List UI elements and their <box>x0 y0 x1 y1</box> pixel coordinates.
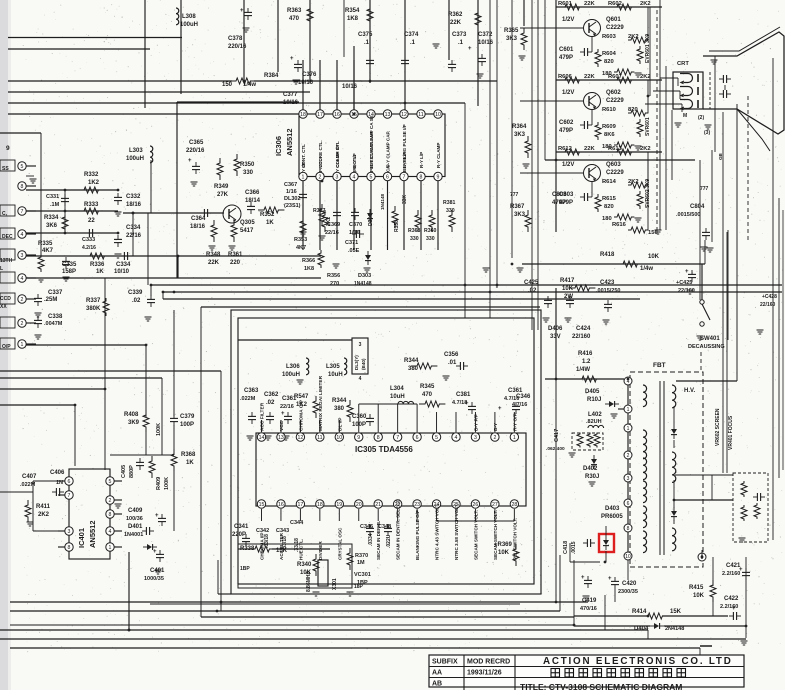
svg-text:1/2V: 1/2V <box>562 17 574 23</box>
svg-text:1N4148: 1N4148 <box>354 281 372 287</box>
svg-text:C420: C420 <box>622 581 637 587</box>
svg-text:CHROMA O/P: CHROMA O/P <box>298 399 304 431</box>
svg-text:22K: 22K <box>584 1 595 7</box>
svg-text:10uH: 10uH <box>328 372 343 378</box>
svg-text:10K: 10K <box>648 254 660 260</box>
svg-text:9: 9 <box>6 145 10 152</box>
svg-text:R353: R353 <box>294 237 307 243</box>
svg-text:100K: 100K <box>164 477 170 490</box>
svg-text:1N4001: 1N4001 <box>124 532 143 538</box>
svg-text:R-Y CLAMP: R-Y CLAMP <box>436 143 441 168</box>
svg-text:R411: R411 <box>36 504 51 510</box>
svg-text:.1: .1 <box>458 40 464 46</box>
svg-text:.0047M: .0047M <box>44 321 63 327</box>
svg-text:VCC: VCC <box>279 420 285 431</box>
svg-text:22/16: 22/16 <box>126 233 142 239</box>
svg-text:10/16: 10/16 <box>298 80 314 86</box>
svg-text:C367: C367 <box>284 182 297 188</box>
svg-text:.01: .01 <box>448 360 457 366</box>
svg-text:C369: C369 <box>327 222 340 228</box>
svg-text:33V: 33V <box>550 334 561 340</box>
svg-text:L402: L402 <box>588 412 602 418</box>
svg-text:C344: C344 <box>290 520 304 526</box>
svg-text:8: 8 <box>68 545 71 551</box>
svg-text:SW401: SW401 <box>700 336 720 342</box>
svg-text:C378: C378 <box>228 36 243 42</box>
svg-text:TITLE: CTV-3108 SCHEMATIC D: TITLE: CTV-3108 SCHEMATIC DIAGRAM <box>520 682 682 690</box>
svg-text:1/16: 1/16 <box>286 189 297 195</box>
svg-text:1.2: 1.2 <box>582 359 591 365</box>
svg-text:1K: 1K <box>266 220 274 226</box>
svg-text:R364: R364 <box>512 124 527 130</box>
svg-text:AA: AA <box>432 670 442 677</box>
svg-text:AN5512: AN5512 <box>285 128 294 156</box>
svg-text:NTRC 3.58 SWITCH VOLT.: NTRC 3.58 SWITCH VOLT. <box>454 504 459 560</box>
svg-text:220/16: 220/16 <box>186 148 205 154</box>
svg-text:+: + <box>153 549 157 555</box>
svg-text:C362: C362 <box>264 392 279 398</box>
svg-text:180: 180 <box>602 216 612 222</box>
svg-text:33K: 33K <box>402 194 408 204</box>
svg-text:10/16: 10/16 <box>283 100 299 106</box>
svg-text:C379: C379 <box>180 414 195 420</box>
svg-text:C375: C375 <box>358 32 373 38</box>
svg-text:R344: R344 <box>404 358 419 364</box>
svg-text:Q601: Q601 <box>606 17 621 23</box>
svg-text:820: 820 <box>604 204 614 210</box>
svg-text:IC306: IC306 <box>274 136 283 156</box>
svg-text:VR602 SCREEN: VR602 SCREEN <box>715 408 721 446</box>
svg-text:4K7: 4K7 <box>296 245 306 251</box>
svg-text:8.86MHZ: 8.86MHZ <box>306 571 312 592</box>
svg-text:100P: 100P <box>180 422 194 428</box>
svg-text:C374: C374 <box>404 32 419 38</box>
svg-text:C424: C424 <box>576 326 591 332</box>
svg-text:ACTION ELECTRONIS CO. LTD: ACTION ELECTRONIS CO. LTD <box>543 656 733 667</box>
svg-text:D401: D401 <box>128 524 143 530</box>
svg-text:1/4w: 1/4w <box>243 82 256 88</box>
svg-text:4: 4 <box>21 232 24 238</box>
svg-text:R-Y L/P: R-Y L/P <box>419 152 424 168</box>
svg-text:1K8: 1K8 <box>304 266 314 272</box>
svg-text:C409: C409 <box>128 508 143 514</box>
svg-text:5: 5 <box>21 164 24 170</box>
svg-text:2K2: 2K2 <box>38 512 50 518</box>
svg-text:1: 1 <box>21 342 24 348</box>
svg-text:Y I/P: Y I/P <box>301 162 306 172</box>
svg-text:C365: C365 <box>189 140 204 146</box>
svg-text:.1: .1 <box>364 40 370 46</box>
svg-text:C/P: C/P <box>386 164 391 172</box>
svg-text:C2229: C2229 <box>606 170 624 176</box>
svg-text:CCD: CCD <box>0 296 11 302</box>
svg-text:DECAUSSING: DECAUSSING <box>688 344 725 350</box>
svg-text:820: 820 <box>604 59 614 65</box>
svg-text:2K2: 2K2 <box>640 1 651 7</box>
svg-text:C339: C339 <box>128 290 143 296</box>
svg-text:MOD RECRD: MOD RECRD <box>467 659 510 666</box>
svg-text:8: 8 <box>109 512 112 518</box>
svg-text:6: 6 <box>68 479 71 485</box>
svg-text:380: 380 <box>408 366 419 372</box>
svg-text:17: 17 <box>317 112 323 118</box>
svg-text:18: 18 <box>300 112 306 118</box>
svg-text:2: 2 <box>21 297 24 303</box>
svg-text:1/16: 1/16 <box>349 230 360 236</box>
svg-text:1BP: 1BP <box>240 566 250 572</box>
svg-text:8: 8 <box>21 184 24 190</box>
svg-text:100uH: 100uH <box>180 22 198 28</box>
svg-text:R384: R384 <box>264 73 279 79</box>
svg-text:D402: D402 <box>583 466 598 472</box>
svg-text:220P: 220P <box>232 532 246 538</box>
svg-text:2: 2 <box>319 174 322 180</box>
svg-text:DL302: DL302 <box>284 196 301 202</box>
svg-text:3K3: 3K3 <box>514 212 526 218</box>
svg-text:330: 330 <box>446 208 455 214</box>
svg-text:8: 8 <box>377 435 380 441</box>
svg-text:14: 14 <box>259 435 265 441</box>
svg-text:R602: R602 <box>608 1 622 7</box>
svg-text:15K: 15K <box>670 609 682 615</box>
svg-text:18/16: 18/16 <box>126 202 142 208</box>
svg-text:D403: D403 <box>605 506 620 512</box>
svg-text:8: 8 <box>627 526 630 532</box>
svg-text:.022U: .022U <box>386 534 392 548</box>
svg-text:470: 470 <box>289 16 300 22</box>
svg-text:(3): (3) <box>704 130 710 136</box>
svg-text:C331: C331 <box>46 194 59 200</box>
svg-text:479P: 479P <box>559 55 573 61</box>
svg-text:NTRC 4.43 SWITCH VOLT.: NTRC 4.43 SWITCH VOLT. <box>435 504 440 560</box>
svg-text:R336: R336 <box>90 262 105 268</box>
svg-text:R610: R610 <box>602 107 616 113</box>
svg-text:SECAM IN DENTR. SELECT.: SECAM IN DENTR. SELECT. <box>396 499 401 560</box>
svg-text:+: + <box>155 513 159 519</box>
svg-text:1K2: 1K2 <box>88 180 100 186</box>
svg-text:R340: R340 <box>297 562 312 568</box>
svg-text:+: + <box>290 56 294 62</box>
svg-text:28: 28 <box>511 502 517 508</box>
svg-text:H.V.: H.V. <box>684 388 695 394</box>
svg-text:777: 777 <box>510 192 519 198</box>
svg-text:C2229: C2229 <box>606 98 624 104</box>
svg-text:C370: C370 <box>349 222 362 228</box>
svg-text:10: 10 <box>625 554 631 560</box>
svg-text:18P: 18P <box>354 584 364 590</box>
svg-text:C337: C337 <box>48 290 63 296</box>
svg-text:C2229: C2229 <box>606 25 624 31</box>
svg-text:3: 3 <box>21 253 24 259</box>
svg-text:R609: R609 <box>602 124 617 130</box>
svg-text:PR6005: PR6005 <box>601 514 623 520</box>
svg-text:4: 4 <box>359 376 362 382</box>
svg-text:.02: .02 <box>266 400 275 406</box>
svg-text:330: 330 <box>243 170 254 176</box>
svg-text:R607: R607 <box>608 74 622 80</box>
svg-text:3: 3 <box>359 342 362 348</box>
svg-text:R363: R363 <box>287 8 302 14</box>
svg-text:X301: X301 <box>332 578 338 590</box>
svg-text:+: + <box>498 406 502 412</box>
svg-text:R614: R614 <box>602 179 617 185</box>
svg-text:.25M: .25M <box>44 297 57 303</box>
svg-text:+: + <box>739 567 743 573</box>
svg-text:SUBFIX: SUBFIX <box>432 659 458 666</box>
svg-text:3: 3 <box>474 435 477 441</box>
svg-text:13: 13 <box>385 112 391 118</box>
svg-text:C803: C803 <box>552 192 567 198</box>
svg-text:.82UH: .82UH <box>586 419 602 425</box>
svg-text:3: 3 <box>627 476 630 482</box>
svg-text:+: + <box>240 8 244 14</box>
svg-text:7: 7 <box>396 435 399 441</box>
svg-text:Q305: Q305 <box>240 220 255 226</box>
svg-text:330: 330 <box>410 236 419 242</box>
svg-text:4: 4 <box>353 174 356 180</box>
svg-text:R415: R415 <box>689 585 704 591</box>
svg-text:C372: C372 <box>478 32 493 38</box>
svg-text:5: 5 <box>435 435 438 441</box>
svg-text:.02: .02 <box>132 298 141 304</box>
svg-text:+: + <box>281 411 285 417</box>
svg-text:11: 11 <box>317 435 322 441</box>
svg-text:6: 6 <box>627 501 630 507</box>
svg-text:C363: C363 <box>244 388 259 394</box>
svg-text:Q603: Q603 <box>606 162 621 168</box>
svg-text:6: 6 <box>416 435 419 441</box>
svg-text:9: 9 <box>437 174 440 180</box>
svg-text:C332: C332 <box>126 194 141 200</box>
svg-text:23: 23 <box>414 502 420 508</box>
svg-text:.0015/250: .0015/250 <box>596 288 620 294</box>
svg-text:26: 26 <box>473 502 479 508</box>
svg-text:R616: R616 <box>612 222 627 228</box>
svg-text:4: 4 <box>109 529 112 535</box>
svg-text:R368: R368 <box>181 452 196 458</box>
svg-text:19: 19 <box>336 502 342 508</box>
svg-text:R360: R360 <box>424 228 437 234</box>
svg-text:380: 380 <box>334 406 345 412</box>
svg-text:8K6: 8K6 <box>604 132 615 138</box>
svg-text:100uH: 100uH <box>126 156 144 162</box>
svg-text:C422: C422 <box>724 596 739 602</box>
svg-text:100/36: 100/36 <box>126 516 143 522</box>
svg-text:.02: .02 <box>528 288 537 294</box>
svg-text:C407: C407 <box>22 474 37 480</box>
svg-text:22K: 22K <box>584 146 595 152</box>
svg-text:3K6: 3K6 <box>46 223 58 229</box>
svg-text:D405: D405 <box>585 389 600 395</box>
svg-text:C419: C419 <box>582 598 597 604</box>
svg-text:R10J: R10J <box>587 397 601 403</box>
svg-text:1/2V: 1/2V <box>562 162 574 168</box>
svg-text:22/160: 22/160 <box>572 334 591 340</box>
svg-text:C371: C371 <box>345 240 358 246</box>
svg-text:+: + <box>468 46 472 52</box>
svg-text:150: 150 <box>222 82 233 88</box>
svg-text:R344: R344 <box>332 398 347 404</box>
svg-text:2: 2 <box>493 435 496 441</box>
svg-text:G-Y CLAMP CAP.: G-Y CLAMP CAP. <box>386 131 391 168</box>
svg-text:100uH: 100uH <box>282 372 300 378</box>
svg-text:C425: C425 <box>524 280 539 286</box>
svg-text:22/160: 22/160 <box>678 288 695 294</box>
svg-text:380K: 380K <box>86 306 101 312</box>
svg-text:FBT: FBT <box>653 362 666 369</box>
svg-text:DL I/P: DL I/P <box>337 417 343 431</box>
svg-text:22: 22 <box>88 218 95 224</box>
svg-text:C601: C601 <box>559 47 574 53</box>
svg-text:BLANKING PULSE I/P: BLANKING PULSE I/P <box>402 124 407 172</box>
svg-text:XX: XX <box>0 304 7 310</box>
svg-text:.33/18: .33/18 <box>294 538 300 552</box>
svg-text:1M: 1M <box>357 560 365 566</box>
svg-text:C346: C346 <box>516 394 531 400</box>
svg-text:D404: D404 <box>634 626 649 632</box>
svg-text:R615: R615 <box>602 196 617 202</box>
svg-text:4K7: 4K7 <box>42 248 54 254</box>
svg-text:10/16: 10/16 <box>478 40 494 46</box>
svg-text:C333: C333 <box>82 237 95 243</box>
svg-text:R30J: R30J <box>585 474 599 480</box>
svg-text:AB: AB <box>432 681 442 688</box>
svg-text:C343: C343 <box>276 528 289 534</box>
svg-text:6: 6 <box>386 174 389 180</box>
svg-text:4.7/16: 4.7/16 <box>512 402 527 408</box>
svg-text:3K9: 3K9 <box>128 420 140 426</box>
svg-text:R417: R417 <box>560 278 575 284</box>
svg-text:C360: C360 <box>352 414 367 420</box>
svg-text:27K: 27K <box>217 192 229 198</box>
svg-text:.022M: .022M <box>240 396 256 402</box>
svg-text:1: 1 <box>627 407 630 413</box>
svg-text:D303: D303 <box>358 273 371 279</box>
svg-text:R368: R368 <box>408 228 421 234</box>
svg-text:21: 21 <box>375 502 381 508</box>
svg-text:+: + <box>685 269 689 275</box>
svg-text:R350: R350 <box>240 162 255 168</box>
svg-text:C405: C405 <box>121 465 127 478</box>
svg-text:(B40): (B40) <box>361 358 366 370</box>
svg-text:+: + <box>608 576 612 582</box>
svg-text:C381: C381 <box>456 392 471 398</box>
svg-text:IC401: IC401 <box>77 528 86 548</box>
svg-text:R332: R332 <box>84 172 99 178</box>
svg-text:PICTURE CTL.: PICTURE CTL. <box>318 140 323 172</box>
svg-text:15: 15 <box>259 502 265 508</box>
svg-text:C342: C342 <box>256 528 269 534</box>
svg-text:.0015: .0015 <box>571 541 577 554</box>
svg-text:R381: R381 <box>443 200 456 206</box>
svg-text:.33/18: .33/18 <box>264 534 270 548</box>
svg-text:(2): (2) <box>698 115 704 121</box>
svg-text:330: 330 <box>426 236 435 242</box>
svg-text:DL3(Y): DL3(Y) <box>354 355 359 370</box>
svg-text:+C428: +C428 <box>762 294 777 300</box>
svg-text:150: 150 <box>648 230 658 236</box>
svg-text:R333: R333 <box>84 202 99 208</box>
svg-text:.1M: .1M <box>50 202 60 208</box>
svg-text:17: 17 <box>298 502 304 508</box>
svg-text:C423: C423 <box>600 280 615 286</box>
svg-text:10/16: 10/16 <box>342 84 358 90</box>
svg-text:10K: 10K <box>562 286 574 292</box>
svg-text:R358: R358 <box>394 220 400 232</box>
svg-text:R349: R349 <box>214 184 229 190</box>
svg-text:1993/11/26: 1993/11/26 <box>467 670 502 677</box>
svg-text:R362: R362 <box>448 12 463 18</box>
svg-text:C338: C338 <box>48 314 63 320</box>
svg-text:3K3: 3K3 <box>514 132 526 138</box>
svg-text:C364: C364 <box>191 216 206 222</box>
svg-text:R335: R335 <box>38 241 53 247</box>
svg-text:C373: C373 <box>452 32 467 38</box>
svg-text:7: 7 <box>403 174 406 180</box>
svg-text:C406: C406 <box>50 470 65 476</box>
svg-text:1000/35: 1000/35 <box>144 576 164 582</box>
svg-text:27: 27 <box>492 502 498 508</box>
svg-text:+: + <box>581 575 585 581</box>
svg-text:2W: 2W <box>564 294 573 300</box>
svg-text:18/14: 18/14 <box>245 198 261 204</box>
svg-text:1/2V: 1/2V <box>562 90 574 96</box>
svg-text:R367: R367 <box>510 204 525 210</box>
svg-text:5: 5 <box>370 174 373 180</box>
svg-text:470/16: 470/16 <box>580 606 597 612</box>
svg-text:L304: L304 <box>390 386 404 392</box>
svg-text:CRT: CRT <box>677 61 689 67</box>
svg-text:R334: R334 <box>44 215 59 221</box>
svg-text:GB: GB <box>718 152 723 160</box>
svg-text:R345: R345 <box>420 384 435 390</box>
svg-text:R-Y O/P: R-Y O/P <box>512 412 518 431</box>
svg-text:1: 1 <box>627 426 630 432</box>
svg-text:L303: L303 <box>129 148 143 154</box>
svg-text:12: 12 <box>401 112 407 118</box>
svg-text:4: 4 <box>21 276 24 282</box>
svg-text:R613: R613 <box>608 146 623 152</box>
svg-text:+: + <box>465 401 469 407</box>
svg-text:C401: C401 <box>150 568 165 574</box>
svg-text:5417: 5417 <box>240 228 254 234</box>
svg-text:10uH: 10uH <box>390 394 405 400</box>
svg-text:18/16: 18/16 <box>190 224 206 230</box>
svg-text:Q602: Q602 <box>606 90 621 96</box>
svg-text:R366: R366 <box>302 258 315 264</box>
svg-text:SVR601: SVR601 <box>645 117 651 136</box>
svg-text:C377: C377 <box>283 92 298 98</box>
svg-text:M: M <box>683 113 687 119</box>
svg-text:4: 4 <box>455 435 458 441</box>
svg-text:R361: R361 <box>228 252 243 258</box>
svg-text:ACC FILTER: ACC FILTER <box>260 402 266 431</box>
svg-text:R414: R414 <box>632 609 647 615</box>
svg-text:R370: R370 <box>355 553 368 559</box>
svg-text:2: 2 <box>109 498 112 504</box>
svg-text:2300/35: 2300/35 <box>618 589 638 595</box>
svg-text:9: 9 <box>357 435 360 441</box>
svg-text:VR401 FOCUS: VR401 FOCUS <box>728 415 734 450</box>
svg-text:2K2: 2K2 <box>640 146 651 152</box>
svg-text:470: 470 <box>422 392 433 398</box>
svg-text:2K2: 2K2 <box>640 74 651 80</box>
svg-text:100K: 100K <box>156 423 162 436</box>
svg-text:R418: R418 <box>600 252 615 258</box>
svg-text:8: 8 <box>420 174 423 180</box>
svg-text:1K: 1K <box>96 269 104 275</box>
svg-text:1N4148: 1N4148 <box>380 193 385 210</box>
